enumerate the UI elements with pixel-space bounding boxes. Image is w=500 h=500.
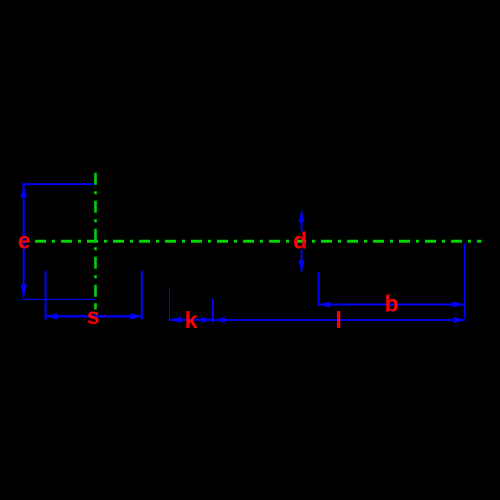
dimension e: vertical dimension line (23, 184, 25, 297)
dimension k: right arrowhead (points right) (202, 317, 213, 323)
dimension s: right extension line (141, 271, 143, 320)
dimension d: lower arrowhead (points down) (298, 260, 304, 272)
dimension b: left arrowhead (points left) (319, 301, 331, 307)
dimension s: dimension line (46, 315, 142, 317)
dimension l / b: right extension line (464, 243, 466, 318)
dimension b: left extension line (318, 272, 320, 306)
dimension e: lower arrowhead (points down) (21, 285, 27, 297)
svg-text:l: l (336, 307, 342, 333)
dimension k: dimension line (170, 319, 214, 321)
dimension d: lower leader line (301, 249, 303, 272)
dimension b: right arrowhead (points right) (452, 301, 464, 307)
dimension l: right arrowhead (points right) (453, 317, 465, 323)
dimension e: upper arrowhead (points up) (21, 185, 27, 197)
dimension k: left thin extension line (169, 288, 171, 322)
dimension l: dimension line (214, 319, 465, 321)
dimension l: left arrowhead (points left) (214, 317, 226, 323)
horizontal centerline (bolt axis) (35, 240, 482, 243)
dimension d: upper arrowhead (points up) (298, 211, 304, 223)
dimension k: right extension line (212, 299, 214, 322)
dimension d: upper leader line (301, 210, 303, 231)
vertical centerline bottom tick (94, 304, 97, 310)
svg-text:s: s (87, 303, 100, 329)
vertical centerline (head end view axis) (94, 173, 97, 310)
svg-text:k: k (185, 307, 198, 333)
dimension e: top extension line (22, 183, 93, 185)
svg-text:e: e (18, 227, 31, 253)
svg-text:b: b (385, 290, 399, 316)
dimension b: dimension line (318, 303, 464, 305)
svg-text:d: d (293, 227, 307, 253)
dimension s: left arrowhead (points left) (46, 313, 57, 319)
dimension s: right arrowhead (points right) (130, 313, 141, 319)
dimension e: bottom thin extension line (22, 298, 96, 300)
dimension k: left arrowhead (points left) (170, 317, 181, 323)
dimension s: left extension line (45, 271, 47, 320)
